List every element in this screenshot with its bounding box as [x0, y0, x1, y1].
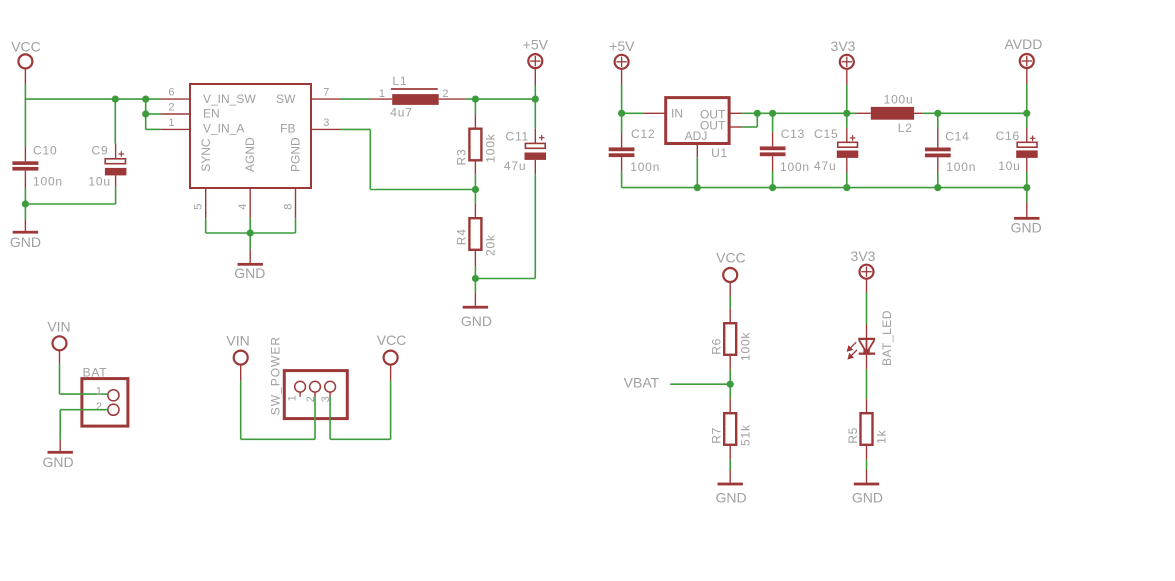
pin stub pad 2: [314, 392, 316, 397]
LED BAT_LED: [858, 339, 875, 353]
wire VIN vertical: [59, 364, 61, 395]
svg-text:3V3: 3V3: [851, 248, 876, 264]
supply 3V3 top: [840, 55, 854, 69]
svg-text:10u: 10u: [88, 175, 110, 189]
resistor R4: [469, 218, 481, 250]
svg-text:R7: R7: [710, 427, 724, 444]
pin of VIN symbol: [59, 350, 61, 363]
wire VCC net vertical: [24, 85, 26, 100]
wire AVDD rail: [923, 112, 1027, 114]
pin IN of U1: [644, 112, 666, 114]
svg-text:100n: 100n: [946, 160, 976, 174]
pin C13 top: [772, 132, 774, 146]
wire +5V vertical: [534, 85, 536, 99]
wire to R4: [474, 190, 476, 204]
svg-text:EN: EN: [203, 106, 220, 120]
pin C11 bottom: [534, 160, 536, 174]
pin R7 top: [729, 399, 731, 414]
wire to IN pin: [622, 112, 644, 114]
junction C15/gnd rail: [843, 184, 850, 191]
pin GND symbol: [249, 249, 251, 263]
svg-text:100n: 100n: [630, 160, 660, 174]
pin C15 bottom: [846, 158, 848, 173]
svg-text:VIN: VIN: [47, 319, 70, 335]
connector BAT box: [82, 379, 128, 427]
svg-text:ADJ: ADJ: [685, 129, 708, 143]
pin R5 top: [866, 399, 868, 414]
svg-text:BAT: BAT: [83, 366, 108, 380]
wire FB horizontal from pin: [341, 128, 371, 130]
wire +5V to C12: [621, 113, 623, 133]
svg-text:GND: GND: [1011, 219, 1042, 235]
capacitor C13: [760, 146, 786, 150]
junction +5V/C11: [532, 96, 539, 103]
wire GND vertical: [59, 410, 61, 440]
svg-text:2: 2: [442, 88, 448, 100]
svg-text:1k: 1k: [875, 429, 889, 443]
wire ADJ to gnd rail: [696, 157, 698, 187]
pin L2 1: [856, 112, 870, 114]
pin R6 bottom: [729, 355, 731, 370]
wire to EN pin: [146, 113, 161, 115]
capacitor C14: [925, 148, 951, 152]
svg-text:AVDD: AVDD: [1004, 36, 1042, 52]
ground GND under BAT: [48, 451, 73, 454]
wire 3V3 to LED: [866, 293, 868, 325]
svg-text:BAT_LED: BAT_LED: [880, 310, 894, 366]
wire +5V net horizontal: [466, 98, 536, 100]
svg-text:3V3: 3V3: [831, 38, 856, 54]
svg-text:C14: C14: [945, 130, 969, 144]
svg-text:5: 5: [193, 204, 205, 210]
svg-text:+5V: +5V: [609, 38, 635, 54]
svg-text:1: 1: [168, 117, 174, 129]
pin 1 V_IN_A: [161, 128, 190, 130]
wire pad3 down: [329, 397, 331, 439]
wire VCC to pad3: [330, 438, 391, 440]
wire BAT pin 2 to GND: [60, 409, 107, 411]
svg-text:V_IN_A: V_IN_A: [203, 122, 244, 136]
supply VCC top-left: [18, 54, 32, 68]
svg-text:VCC: VCC: [377, 332, 407, 348]
ground GND under R5: [854, 483, 879, 486]
pin OUT top of U1: [729, 112, 742, 114]
inductor L1: [391, 88, 438, 90]
svg-text:R3: R3: [455, 149, 469, 166]
wire gnd rail horizontal: [622, 187, 1027, 189]
junction VBAT node: [727, 381, 734, 388]
junction C13/rail: [769, 110, 776, 117]
junction +5V/C12/IN: [618, 110, 625, 117]
pin 3 FB: [311, 128, 341, 130]
capacitor C16 (polarized): [1017, 142, 1037, 147]
junction L1/R3: [472, 96, 479, 103]
svg-text:SYNC: SYNC: [199, 138, 213, 172]
wire C9 bottom vertical: [115, 187, 117, 204]
wire SW to L1: [341, 98, 371, 100]
wire C11 down: [534, 174, 536, 278]
wire gnd bus horizontal: [206, 232, 296, 234]
svg-text:VBAT: VBAT: [624, 375, 660, 391]
wire VBAT to R7: [729, 384, 731, 399]
capacitor C10: [12, 161, 38, 165]
junction gnd bus: [247, 229, 254, 236]
svg-text:100k: 100k: [738, 332, 752, 361]
junction node C10/C9/GND: [22, 200, 29, 207]
connector SW_POWER box: [284, 371, 347, 419]
wire VBAT stub: [670, 383, 730, 385]
svg-text:VCC: VCC: [716, 250, 746, 266]
wire pad2 down: [314, 397, 316, 439]
ground GND under IC: [238, 263, 263, 266]
svg-text:100n: 100n: [33, 175, 63, 189]
junction C13/gnd rail: [769, 184, 776, 191]
wire VCC to C10: [24, 99, 26, 147]
svg-text:7: 7: [323, 87, 329, 99]
pin R6 top: [729, 309, 731, 324]
pin C10 top: [24, 147, 26, 162]
wire AVDD vertical: [1026, 84, 1028, 113]
pad 2 of SW_POWER: [310, 381, 321, 392]
pin GND symbol: [866, 470, 868, 483]
svg-text:GND: GND: [42, 454, 73, 470]
inductor L2: [871, 107, 914, 120]
pin of VIN symbol: [240, 365, 242, 381]
pin C9 bottom: [115, 176, 117, 187]
supply +5V left: [528, 54, 542, 68]
junction C14/rail: [934, 110, 941, 117]
ground GND under C10: [13, 231, 38, 234]
wire AGND to gnd bus: [249, 218, 251, 233]
supply VIN left: [53, 336, 67, 350]
pin stub pad 1: [299, 392, 301, 397]
pin 4 AGND: [249, 188, 251, 218]
svg-text:2: 2: [168, 102, 174, 114]
wire VCC to R6: [729, 297, 731, 309]
svg-text:20k: 20k: [484, 234, 498, 256]
wire to GND symbol: [474, 279, 476, 293]
pin GND symbol: [729, 470, 731, 483]
svg-text:1: 1: [96, 385, 102, 397]
svg-text:GND: GND: [234, 265, 265, 281]
pin OUT bottom of U1: [729, 126, 742, 128]
svg-text:C16: C16: [996, 129, 1020, 143]
ground GND under R4: [463, 306, 488, 309]
wire C11 to gnd node: [475, 278, 535, 280]
svg-text:GND: GND: [852, 490, 883, 506]
pin R7 bottom: [729, 445, 731, 460]
pin of 3V3 symbol: [866, 279, 868, 293]
wire VCC net horizontal main: [25, 98, 161, 100]
wire 3V3 to C15: [846, 113, 848, 128]
pin C14 top: [937, 128, 939, 148]
wire to GND symbol: [1026, 188, 1028, 203]
wire gnd node horizontal: [25, 203, 115, 205]
junction VCC/EN branch: [142, 96, 149, 103]
pin GND symbol: [59, 440, 61, 451]
pin 5 SYNC: [205, 188, 207, 218]
wire VCC to C9: [114, 99, 116, 144]
svg-text:C12: C12: [631, 127, 655, 141]
svg-text:+5V: +5V: [523, 37, 549, 53]
pin R4 bottom: [474, 250, 476, 266]
svg-text:C11: C11: [506, 130, 530, 144]
capacitor C9 (polarized): [105, 168, 127, 176]
svg-text:R4: R4: [455, 228, 469, 245]
wire to R3: [474, 99, 476, 114]
pin 2 EN: [161, 113, 190, 115]
pad 3 of SW_POWER: [325, 381, 336, 392]
svg-text:C10: C10: [33, 144, 57, 158]
wire SYNC to gnd bus: [205, 218, 207, 233]
pad 1 of SW_POWER: [295, 381, 306, 392]
resistor R6: [724, 323, 736, 355]
wire C14 to gnd rail: [937, 172, 939, 188]
capacitor C15 (polarized): [838, 142, 858, 147]
pin R4 top: [474, 204, 476, 218]
wire R4 to gnd node: [474, 266, 476, 278]
wire +5V vertical right: [621, 85, 623, 113]
wire to GND: [24, 204, 26, 220]
voltage regulator U1 box: [666, 98, 729, 144]
pin R5 bottom: [866, 445, 868, 460]
svg-text:U1: U1: [711, 146, 728, 160]
wire R6 to VBAT node: [729, 369, 731, 384]
wire C13 to gnd rail: [772, 171, 774, 188]
svg-text:4u7: 4u7: [390, 106, 412, 120]
wire C12 to gnd rail: [621, 172, 623, 188]
junction C16/gnd rail: [1023, 184, 1030, 191]
svg-text:SW: SW: [276, 92, 296, 106]
ground GND right block: [1014, 217, 1039, 220]
junction VCC/C9: [112, 96, 119, 103]
pin LED anode: [866, 325, 868, 340]
wire FB vertical: [369, 129, 371, 189]
wire VCC vertical long: [390, 381, 392, 439]
pin stub pad 3: [329, 392, 331, 397]
svg-text:2: 2: [96, 401, 102, 413]
svg-text:PGND: PGND: [289, 137, 303, 172]
junction ADJ/gnd rail: [694, 184, 701, 191]
svg-text:C13: C13: [781, 127, 805, 141]
pin C12 top: [621, 133, 623, 147]
pin C16 top: [1026, 128, 1028, 142]
pad 1 of BAT: [108, 390, 119, 401]
svg-text:VCC: VCC: [11, 39, 41, 55]
svg-text:100u: 100u: [884, 93, 914, 107]
wire to GND symbol: [249, 233, 251, 249]
pin L2 2: [914, 112, 923, 114]
pin C10 bottom: [24, 171, 26, 189]
wire to V_IN_A pin: [146, 128, 161, 130]
svg-text:C15: C15: [814, 127, 838, 141]
wire OUT2 riser: [756, 113, 758, 127]
svg-text:SW_POWER: SW_POWER: [269, 336, 283, 415]
supply AVDD: [1020, 54, 1034, 68]
pin 6 V_IN_SW: [161, 98, 190, 100]
pin L1 1: [370, 98, 392, 100]
pin of 3V3 symbol: [846, 69, 848, 85]
pin C16 bottom: [1026, 158, 1028, 172]
supply 3V3 bottom-right: [860, 265, 874, 279]
wire 3V3 vertical: [846, 85, 848, 113]
junction R4/C11/GND: [472, 275, 479, 282]
svg-text:R6: R6: [710, 338, 724, 355]
supply VCC middle: [384, 351, 398, 365]
ground GND under R7: [718, 483, 743, 486]
wire +5V to C11: [534, 99, 536, 129]
svg-text:1: 1: [287, 395, 299, 401]
svg-text:IN: IN: [671, 106, 683, 120]
pin C9 top: [115, 144, 117, 159]
supply VIN middle: [234, 351, 248, 365]
svg-text:GND: GND: [10, 234, 41, 250]
pin of VCC symbol: [729, 282, 731, 297]
svg-text:AGND: AGND: [243, 137, 257, 172]
svg-text:47u: 47u: [504, 159, 526, 173]
svg-text:FB: FB: [280, 122, 295, 136]
wire rail to C13: [772, 113, 774, 132]
junction 3V3/C15: [843, 110, 850, 117]
pin of +5V symbol: [534, 68, 536, 85]
svg-text:51k: 51k: [738, 424, 752, 446]
pin GND symbol: [474, 293, 476, 306]
pin GND symbol: [1026, 202, 1028, 217]
wire VIN to pad2: [241, 438, 315, 440]
wire C15 to gnd rail: [846, 172, 848, 187]
pin C15 top: [846, 128, 848, 142]
LED arrows: [848, 342, 858, 358]
pin GND symbol: [24, 220, 26, 231]
svg-text:R5: R5: [846, 427, 860, 444]
svg-text:C9: C9: [92, 144, 109, 158]
junction OUT2/rail: [754, 110, 761, 117]
IC buck regulator box: [190, 84, 311, 188]
pin LED cathode: [866, 355, 868, 370]
wire R3 to FB node: [474, 174, 476, 189]
pin of +5V symbol: [621, 69, 623, 85]
svg-text:VIN: VIN: [226, 332, 249, 348]
wire C10 to gnd node: [24, 189, 26, 205]
svg-text:L2: L2: [898, 121, 913, 135]
pin C14 bottom: [937, 157, 939, 172]
wire C16 to gnd rail: [1026, 172, 1028, 188]
pin of VCC symbol: [24, 68, 26, 84]
wire 3V3 rail left part: [742, 112, 856, 114]
pin of VCC symbol: [390, 365, 392, 381]
pin R3 bottom: [474, 160, 476, 174]
svg-text:4: 4: [237, 204, 249, 210]
resistor R3: [469, 129, 481, 161]
wire OUT2 horizontal: [742, 126, 757, 128]
wire VIN vertical long: [240, 381, 242, 439]
svg-text:47u: 47u: [814, 159, 836, 173]
supply VCC bottom-right: [723, 268, 737, 282]
junction EN: [142, 110, 149, 117]
wire R7 to GND: [729, 459, 731, 470]
pin 8 PGND: [295, 188, 297, 218]
svg-text:100k: 100k: [484, 133, 498, 162]
supply +5V right: [615, 55, 629, 69]
wire FB to divider: [370, 189, 475, 191]
wire EN branch vertical: [145, 99, 147, 129]
svg-text:8: 8: [282, 204, 294, 210]
pin L1 2: [439, 98, 466, 100]
wire LED to R5: [866, 369, 868, 398]
pin 7 SW: [311, 98, 341, 100]
svg-text:GND: GND: [715, 490, 746, 506]
pin C13 bottom: [772, 156, 774, 171]
resistor R7: [724, 413, 736, 445]
pin ADJ of U1: [696, 144, 698, 158]
junction AVDD/C16: [1023, 110, 1030, 117]
wire R5 to GND: [866, 459, 868, 470]
resistor R5: [861, 413, 873, 445]
svg-text:10u: 10u: [998, 159, 1020, 173]
junction FB node: [472, 186, 479, 193]
svg-text:6: 6: [168, 87, 174, 99]
svg-text:3: 3: [323, 117, 329, 129]
pin R3 top: [474, 114, 476, 129]
svg-text:100n: 100n: [780, 160, 810, 174]
junction C14/gnd rail: [934, 184, 941, 191]
wire rail to C14: [937, 113, 939, 128]
svg-text:L1: L1: [392, 74, 407, 88]
capacitor C12: [609, 147, 635, 151]
pin of AVDD symbol: [1026, 68, 1028, 84]
capacitor C11 (polarized): [525, 143, 545, 148]
wire VIN to BAT pin 1: [60, 393, 108, 395]
wire AVDD to C16: [1026, 113, 1028, 128]
pin C11 top: [534, 129, 536, 143]
wire PGND to gnd bus: [295, 218, 297, 233]
pad 2 of BAT: [108, 404, 119, 415]
svg-text:GND: GND: [461, 313, 492, 329]
svg-text:V_IN_SW: V_IN_SW: [203, 92, 256, 106]
pin C12 bottom: [621, 157, 623, 172]
svg-text:1: 1: [379, 88, 385, 100]
